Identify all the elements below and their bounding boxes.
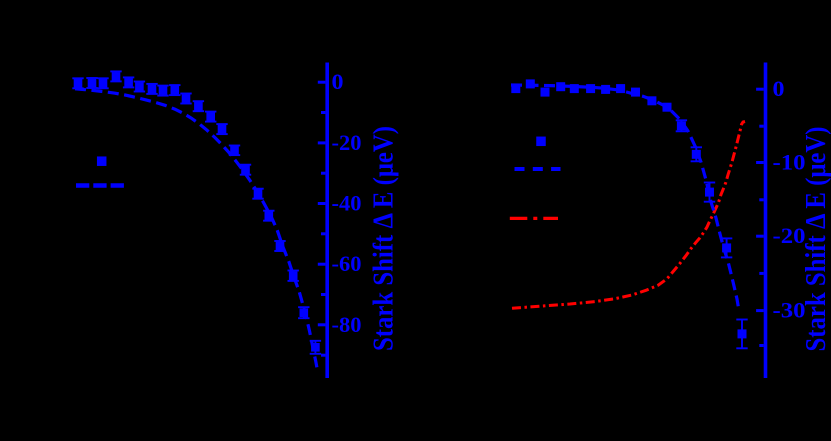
left panel major ticks <box>318 82 326 325</box>
right panel red theory dash-dot curve <box>512 122 745 309</box>
svg-text:-40: -40 <box>332 191 362 216</box>
left panel legend: theory dashed line sample <box>76 183 124 188</box>
right panel y-axis line <box>764 63 768 379</box>
left panel tick labels <box>332 69 362 337</box>
right panel legend: red dash-dot line sample <box>510 217 558 220</box>
right panel axis title "Stark Shift &#916; E (&#956;eV)" <box>800 127 831 352</box>
left panel axis title "Stark Shift &#916; E (&#956;eV)" <box>367 126 399 351</box>
svg-text:Stark Shift Δ E (μeV): Stark Shift Δ E (μeV) <box>367 126 399 351</box>
right panel minor ticks <box>759 126 763 345</box>
svg-text:-20: -20 <box>332 130 362 155</box>
right panel legend: experiment square symbol <box>536 137 546 147</box>
right panel experimental data points (squares with error bars) <box>511 79 747 348</box>
svg-text:0: 0 <box>332 69 344 94</box>
right panel tick labels <box>773 76 806 322</box>
right panel legend: blue dashed line sample <box>515 167 561 171</box>
left panel legend: experiment square symbol <box>97 156 107 166</box>
svg-text:0: 0 <box>773 76 785 101</box>
left panel y-axis line <box>325 63 329 379</box>
svg-text:-80: -80 <box>332 312 362 337</box>
right panel blue theory dashed curve <box>511 85 739 311</box>
right panel major ticks <box>756 89 764 310</box>
svg-text:Stark Shift Δ E (μeV): Stark Shift Δ E (μeV) <box>800 127 831 352</box>
svg-text:-60: -60 <box>332 251 362 276</box>
left panel minor ticks <box>321 113 325 356</box>
left panel experimental data points (squares with error bars) <box>72 71 321 353</box>
left panel theory dashed curve <box>75 89 317 368</box>
